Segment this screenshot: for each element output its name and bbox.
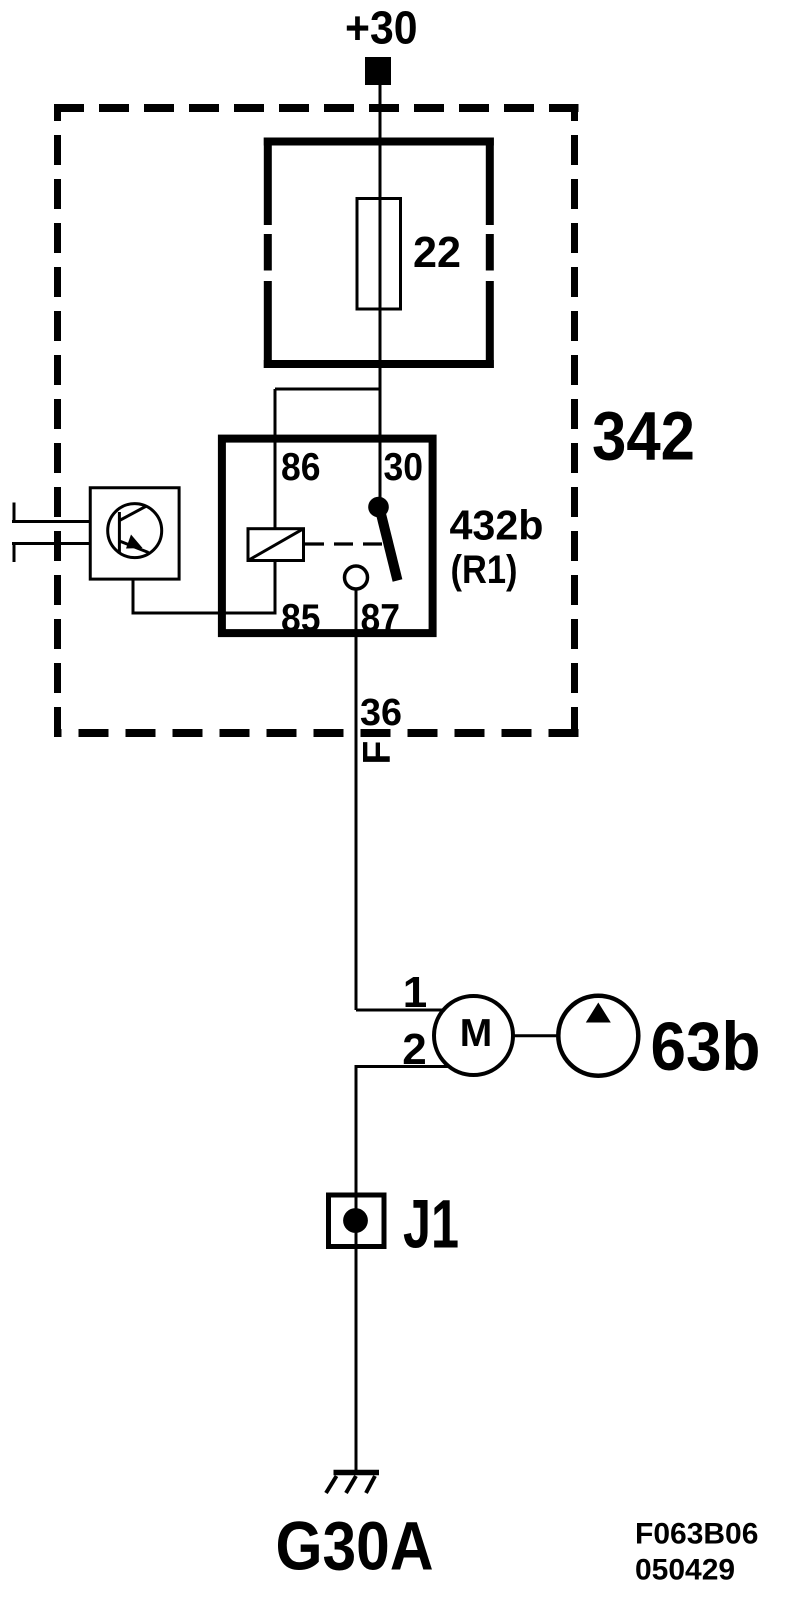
ground hatch right xyxy=(366,1476,375,1493)
svg-text:1: 1 xyxy=(403,968,427,1017)
svg-text:432b: 432b xyxy=(450,502,544,549)
svg-text:87: 87 xyxy=(361,597,401,640)
contact 87 circle xyxy=(345,566,368,589)
wire motor pin 2 xyxy=(356,1067,450,1472)
motor M1 circle xyxy=(434,996,513,1075)
svg-text:F: F xyxy=(356,741,399,765)
left connector wire upper xyxy=(12,520,89,523)
svg-text:G30A: G30A xyxy=(276,1508,434,1585)
transistor collector xyxy=(119,506,146,521)
switch pivot dot xyxy=(368,497,389,518)
svg-text:63b: 63b xyxy=(651,1008,761,1085)
relay coil diagonal xyxy=(248,529,304,561)
relay coil xyxy=(248,529,304,561)
dashed enclosure box 342 top xyxy=(54,104,579,112)
dashed enclosure box 342 right xyxy=(571,104,578,737)
fuse 22 element xyxy=(357,199,401,310)
fuse box bottom edge xyxy=(264,360,494,368)
svg-text:(R1): (R1) xyxy=(451,548,518,592)
ground bar xyxy=(334,1470,380,1476)
svg-text:86: 86 xyxy=(281,446,321,489)
transistor emitter xyxy=(119,541,148,553)
fuse box right edge (broken) xyxy=(486,138,494,369)
transistor emitter arrow xyxy=(126,535,143,549)
svg-text:22: 22 xyxy=(413,228,461,277)
fuse box left edge (broken) xyxy=(264,138,272,369)
left connector wire lower xyxy=(12,542,89,545)
transistor circle xyxy=(108,504,162,558)
svg-text:85: 85 xyxy=(281,597,321,640)
switch arm xyxy=(381,514,398,581)
wire motor to pump xyxy=(513,1034,558,1037)
+30 terminal square xyxy=(365,57,391,85)
ground hatch left xyxy=(326,1476,337,1493)
wire coil to pin 85 route xyxy=(133,561,275,614)
wire to motor pin 1 xyxy=(356,1009,445,1012)
wire +30 to relay pin 30 xyxy=(379,85,382,507)
ground hatch middle xyxy=(346,1476,356,1493)
left connector tick upper xyxy=(13,503,16,522)
svg-text:342: 342 xyxy=(592,398,695,475)
fuse box top edge xyxy=(264,138,494,146)
svg-text:M: M xyxy=(460,1012,493,1055)
svg-text:30: 30 xyxy=(384,446,424,489)
transistor base bar xyxy=(118,512,121,553)
wire branch to pin 86 vertical xyxy=(274,389,277,528)
left connector tick lower xyxy=(13,544,16,563)
transistor box U1 xyxy=(90,488,179,579)
pump triangle xyxy=(586,1003,611,1023)
relay box 432b xyxy=(222,439,433,633)
svg-text:J1: J1 xyxy=(403,1186,459,1263)
pump circle 63b xyxy=(558,996,638,1076)
wire pin 87 down xyxy=(355,589,358,1010)
svg-text:F063B06: F063B06 xyxy=(635,1518,758,1551)
coil-switch dashed link xyxy=(305,542,384,545)
svg-text:2: 2 xyxy=(402,1025,426,1074)
wire branch to pin 86 horizontal xyxy=(275,388,380,391)
svg-text:+30: +30 xyxy=(345,2,418,54)
junction J1 dot xyxy=(343,1208,368,1233)
dashed enclosure box 342 bottom xyxy=(54,729,579,737)
dashed enclosure box 342 left xyxy=(54,104,61,737)
svg-text:050429: 050429 xyxy=(635,1554,735,1587)
svg-text:36: 36 xyxy=(360,692,402,734)
junction J1 box xyxy=(329,1195,385,1247)
